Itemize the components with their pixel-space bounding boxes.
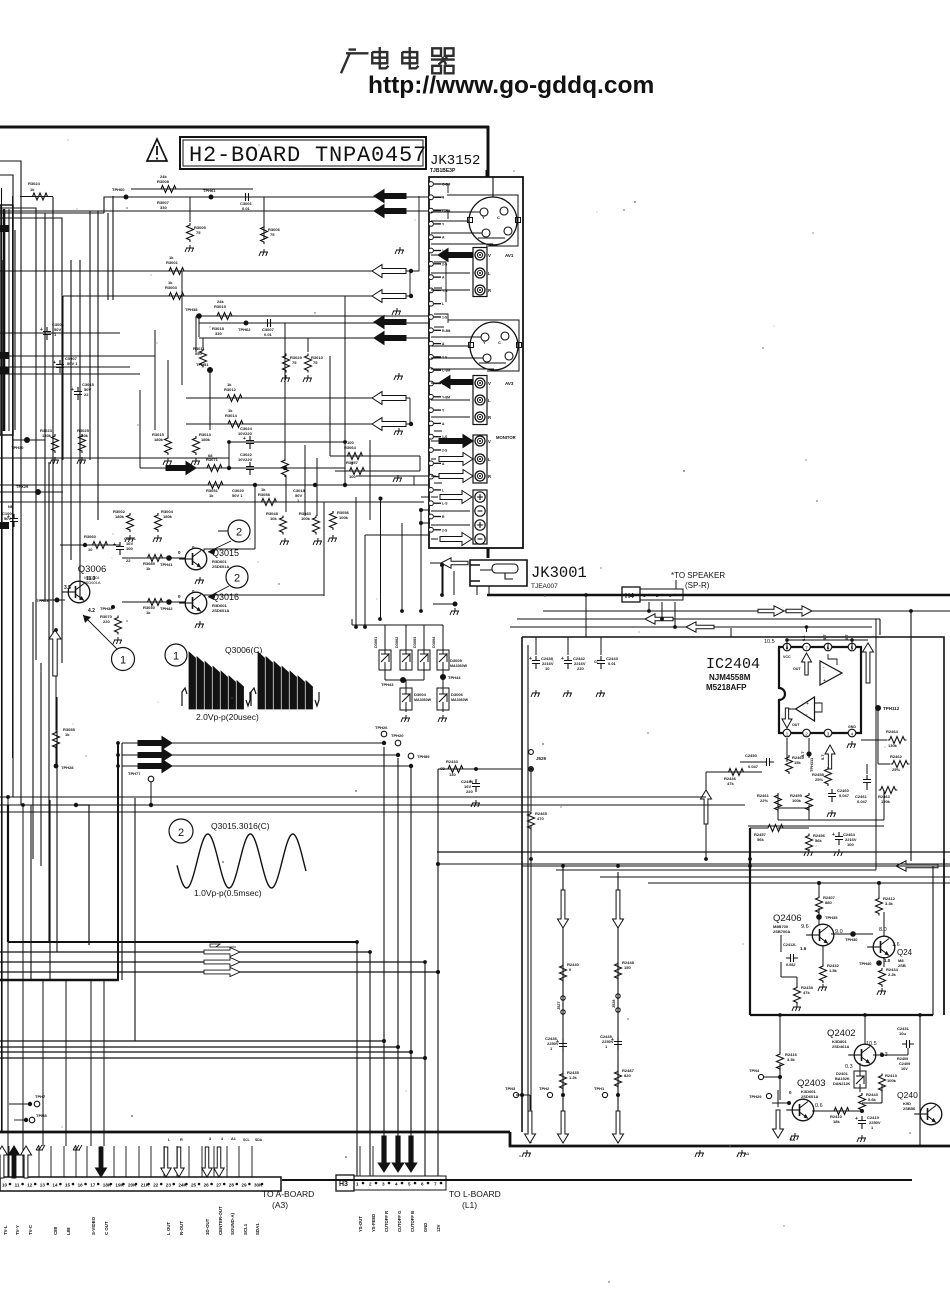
svg-text:100k: 100k — [339, 515, 349, 520]
svg-text:Q3006(C): Q3006(C) — [225, 645, 262, 655]
bus wires y952-972 with white arrows — [0, 951, 370, 953]
svg-text:1k: 1k — [227, 382, 232, 387]
svg-text:D3004: D3004 — [414, 692, 427, 697]
A-board connector box — [0, 1177, 281, 1191]
svg-text:Q2406: Q2406 — [773, 913, 802, 924]
resistor R2407 820 — [816, 896, 823, 915]
svg-text:330: 330 — [215, 331, 222, 336]
transistor Q3016 — [185, 592, 207, 614]
svg-text:Q24: Q24 — [897, 948, 913, 957]
svg-text:L: L — [488, 457, 491, 462]
resistor R2462 22k — [891, 761, 910, 768]
test point TPH43 — [400, 677, 406, 683]
feed verticals from pin area down — [355, 497, 357, 627]
svg-text:Q2403: Q2403 — [797, 1078, 826, 1089]
wires DIN1 to pins — [431, 211, 480, 213]
connector pin vertical wires — [8, 1146, 10, 1177]
svg-text:100: 100 — [126, 546, 133, 551]
svg-text:2: 2 — [178, 827, 184, 839]
wire y485 R3051 C3020 — [0, 484, 424, 486]
svg-text:*TO SPEAKER: *TO SPEAKER — [671, 571, 725, 580]
svg-text:TPN3: TPN3 — [505, 1086, 516, 1091]
svg-text:10V220: 10V220 — [238, 431, 253, 436]
resistor R2438 47k — [794, 986, 801, 1005]
wire y296 with R3003 — [63, 295, 410, 297]
resistor R3024 — [31, 193, 50, 200]
svg-text:10u: 10u — [899, 1031, 906, 1036]
svg-text:1: 1 — [120, 655, 126, 667]
wire top row R3008 line — [131, 188, 253, 190]
svg-text:1k: 1k — [146, 610, 151, 615]
left horizontal wires mid — [0, 355, 155, 357]
test point TPH44 — [440, 674, 446, 680]
svg-text:9.6: 9.6 — [801, 924, 809, 930]
svg-text:0.01: 0.01 — [242, 206, 251, 211]
AV1 RCA jack group — [473, 248, 487, 297]
svg-text:24k: 24k — [160, 174, 167, 179]
svg-text:R: R — [488, 415, 491, 420]
svg-text:7: 7 — [434, 1182, 437, 1187]
wire x618 with white down arrow — [617, 872, 619, 1143]
svg-text:+: + — [71, 387, 74, 393]
svg-text:R3019: R3019 — [214, 304, 227, 309]
svg-text:TV-Y: TV-Y — [15, 1225, 20, 1235]
resistor R2440 0 — [560, 964, 567, 983]
circled 2 waveform2 — [169, 819, 193, 843]
svg-text:+: + — [855, 1116, 858, 1122]
svg-text:220: 220 — [466, 789, 473, 794]
resistor R2458 25% — [825, 767, 832, 786]
svg-text:16V: 16V — [901, 1067, 908, 1071]
svg-text:TPH40: TPH40 — [859, 961, 872, 966]
svg-text:TV-L: TV-L — [3, 1225, 8, 1235]
far right vertical wires — [919, 1015, 921, 1145]
svg-text:R3012: R3012 — [224, 387, 237, 392]
svg-text:24k: 24k — [217, 299, 224, 304]
test point TPH89 — [408, 753, 414, 759]
white arrow y398 — [372, 392, 406, 405]
svg-text:180k: 180k — [115, 514, 125, 519]
capacitor C2464 — [835, 832, 843, 845]
svg-text:L: L — [442, 488, 444, 492]
test point TPH29 — [766, 1093, 771, 1098]
svg-text:TPH28: TPH28 — [61, 765, 74, 770]
svg-text:TPH30: TPH30 — [11, 445, 24, 450]
svg-text:0.047: 0.047 — [839, 793, 850, 798]
IC top feedback wiring — [787, 640, 868, 649]
jumper J528 — [616, 994, 620, 998]
svg-text:470: 470 — [537, 816, 544, 821]
vertical wires mid column — [139, 390, 141, 468]
svg-text:4.2: 4.2 — [88, 608, 95, 614]
test point TPX29 — [35, 489, 41, 495]
nested corner wires top-left — [0, 161, 21, 805]
wire y442 — [229, 441, 345, 443]
svg-text:+: + — [823, 678, 826, 684]
capacitor C2412 — [786, 954, 798, 962]
arrow into AV1 V — [438, 249, 472, 262]
svg-text:TPH38: TPH38 — [185, 307, 198, 312]
resistor R3010 75 — [307, 338, 309, 352]
capacitor C3015 — [74, 387, 82, 400]
resistor R3025 — [79, 434, 86, 453]
IC2404 body — [779, 647, 861, 733]
svg-text:MA3360W: MA3360W — [450, 664, 468, 668]
left offpage connector outline — [0, 205, 13, 435]
CUTOFF feed verticals from TPH dots — [383, 747, 385, 1140]
black arrow y211 — [374, 205, 406, 218]
svg-text:100: 100 — [847, 842, 854, 847]
right border vertical of top area — [487, 126, 490, 177]
resistor R3089 1k — [146, 555, 165, 562]
svg-text:TPX29: TPX29 — [16, 484, 29, 489]
svg-text:18k: 18k — [833, 1119, 840, 1124]
svg-text:3.5: 3.5 — [64, 585, 71, 591]
svg-text:http://www.go-gddq.com: http://www.go-gddq.com — [368, 72, 654, 99]
svg-text:11: 11 — [15, 1183, 20, 1188]
svg-text:12: 12 — [27, 1183, 33, 1188]
black arrow y338 — [374, 332, 406, 345]
svg-text:TPH61: TPH61 — [203, 188, 216, 193]
resistor R3083 100k — [313, 516, 320, 535]
DIN1 chord and enclosure wires — [447, 195, 518, 246]
speaker terminal group — [473, 490, 487, 544]
svg-text:SDA: SDA — [255, 1138, 263, 1142]
svg-text:100k: 100k — [792, 798, 802, 803]
svg-text:1k: 1k — [146, 566, 151, 571]
diode D3004 — [400, 688, 412, 710]
resistor R2433 130 — [446, 766, 465, 773]
resistor R2463 100k — [879, 787, 898, 794]
svg-text:15k: 15k — [794, 760, 801, 765]
resistor R2412 3.3k — [876, 897, 883, 916]
resistor R2459 100k — [806, 793, 813, 812]
capacitor C2442 — [567, 637, 569, 655]
svg-text:CUTOFF B: CUTOFF B — [410, 1211, 415, 1232]
svg-text:H2-BOARD TNPA0457: H2-BOARD TNPA0457 — [189, 143, 427, 168]
svg-text:100k: 100k — [887, 1078, 897, 1083]
circled 2 ref 1 — [228, 520, 250, 542]
svg-text:TPH7: TPH7 — [35, 1094, 46, 1099]
wire y619 — [517, 618, 880, 620]
svg-text:2-S: 2-S — [442, 355, 448, 359]
svg-text:220: 220 — [577, 666, 584, 671]
test point TPH1 — [602, 1092, 607, 1097]
vertical drop from H4 — [648, 602, 650, 611]
resistor R3030 1k — [146, 599, 165, 606]
svg-text:5.7: 5.7 — [822, 634, 827, 640]
resistor R3029 75 — [285, 338, 287, 352]
resistor R2432 1.5k — [820, 964, 827, 983]
svg-text:+: + — [561, 656, 564, 662]
svg-text:68: 68 — [208, 453, 213, 458]
resistor R2448 150 — [615, 962, 622, 981]
svg-text:TPH26: TPH26 — [375, 725, 388, 730]
white arrow up at pin7 — [802, 653, 812, 675]
white arrow y424 — [372, 418, 406, 431]
svg-text:14: 14 — [52, 1183, 58, 1188]
svg-text:75: 75 — [196, 230, 201, 235]
svg-text:2: 2 — [369, 1182, 372, 1187]
svg-text:75: 75 — [270, 232, 275, 237]
thick vertical bus x118 — [117, 743, 119, 980]
svg-text:C-8M: C-8M — [442, 183, 450, 187]
svg-text:Q2402: Q2402 — [827, 1028, 856, 1039]
black down arrow pin17 — [96, 1147, 107, 1177]
svg-text:(L1): (L1) — [462, 1200, 477, 1210]
vertical wire x586 to audio box — [585, 595, 587, 637]
diode D3002 — [400, 650, 412, 670]
ground top of diode area — [453, 602, 458, 607]
svg-text:C88: C88 — [53, 1226, 58, 1235]
svg-text:L: L — [442, 302, 444, 306]
connector block JK3152 outline — [429, 177, 523, 548]
white down arrows to bottom bus — [525, 1111, 536, 1143]
warning triangle — [147, 139, 167, 161]
svg-text:11.3: 11.3 — [86, 576, 96, 582]
svg-text:D3002: D3002 — [395, 637, 399, 648]
svg-text:Y: Y — [483, 340, 486, 345]
test point TPH35 — [816, 914, 822, 920]
white arrow up at pin3 — [825, 745, 835, 769]
svg-text:MA3360W: MA3360W — [451, 698, 469, 702]
svg-text:R3003: R3003 — [165, 285, 178, 290]
svg-text:R3008: R3008 — [157, 179, 170, 184]
svg-text:SCL: SCL — [243, 1138, 250, 1142]
svg-text:JK3001: JK3001 — [531, 564, 587, 582]
IC2404 pins bottom 1 2 3 4 — [783, 729, 791, 737]
test point TPH63 — [55, 598, 60, 603]
svg-text:330: 330 — [160, 205, 167, 210]
svg-text:47k: 47k — [803, 990, 810, 995]
svg-text:MA3360W: MA3360W — [414, 698, 432, 702]
resistor R3020 R3029 vertical pair — [284, 323, 286, 445]
resistor R3013 180k — [193, 436, 200, 455]
svg-text:TJEA007: TJEA007 — [531, 583, 558, 590]
svg-text:3: 3 — [209, 1137, 211, 1141]
svg-text:100: 100 — [349, 474, 356, 479]
svg-text:IC2404: IC2404 — [706, 656, 760, 673]
svg-text:2: 2 — [234, 573, 240, 585]
svg-text:GND: GND — [423, 1223, 428, 1232]
svg-text:H4: H4 — [625, 593, 634, 600]
bottom second bus line — [282, 1179, 912, 1181]
svg-text:100k: 100k — [301, 516, 311, 521]
svg-text:130: 130 — [449, 772, 456, 777]
svg-text:50V 1: 50V 1 — [67, 361, 78, 366]
wire y323 R3018 TPH62 C3007 — [199, 322, 429, 324]
svg-text:TPH35: TPH35 — [825, 915, 838, 920]
test point TPH51 — [207, 367, 213, 373]
diode D3003 — [418, 650, 430, 670]
JK3001 bottom feeds — [476, 586, 478, 595]
svg-text:GND: GND — [848, 725, 856, 729]
svg-text:TPH89: TPH89 — [417, 754, 430, 759]
resistor R2434 2.2k — [879, 968, 886, 987]
transistor Q2407 — [873, 936, 895, 958]
svg-text:56k: 56k — [815, 838, 822, 843]
svg-text:D3003: D3003 — [413, 637, 417, 648]
svg-text:25: 25 — [191, 1183, 197, 1188]
bus arrows mid left (3 black) — [122, 742, 384, 744]
test point TPH77 — [148, 776, 154, 782]
left vertical wires — [1, 188, 3, 1131]
svg-text:NF: NF — [8, 504, 14, 509]
svg-text:D3004: D3004 — [432, 636, 436, 648]
resistor R3064 100 — [346, 453, 365, 460]
svg-text:J528: J528 — [612, 1000, 616, 1008]
resistor R3055 — [55, 676, 57, 730]
svg-text:+: + — [53, 360, 56, 366]
svg-text:2SD601A: 2SD601A — [212, 608, 229, 613]
svg-text:880: 880 — [825, 900, 832, 905]
resistor R3070 220 — [115, 616, 122, 635]
svg-text:J527: J527 — [557, 1002, 561, 1010]
resistor R2442 5.6k — [859, 1093, 866, 1112]
svg-text:17: 17 — [90, 1183, 96, 1188]
svg-text:L OUT: L OUT — [166, 1222, 171, 1235]
DIN2 chord and enclosure wires — [448, 320, 519, 371]
test point TPH20 — [395, 740, 401, 746]
test point TPH7 — [28, 1102, 32, 1106]
H3 pin short stubs — [359, 1146, 361, 1176]
svg-text:3.3k: 3.3k — [885, 901, 894, 906]
svg-text:1k: 1k — [30, 187, 35, 192]
thick corner bus y980 — [0, 979, 119, 981]
svg-text:TPH77: TPH77 — [128, 771, 141, 776]
circled 1 waveform label — [165, 644, 187, 666]
svg-text:180k: 180k — [163, 514, 173, 519]
thick corner bus x8/y942 — [7, 805, 9, 942]
svg-text:1: 1 — [356, 1182, 359, 1187]
svg-text:TPH42: TPH42 — [160, 606, 173, 611]
svg-text:YS-FEED: YS-FEED — [371, 1214, 376, 1232]
diode D3006 — [437, 688, 449, 710]
arrow terminal 4 — [440, 533, 472, 546]
capacitor C2419 — [858, 1116, 866, 1129]
svg-text:D3001: D3001 — [374, 637, 378, 648]
svg-text:2250V: 2250V — [602, 1039, 614, 1044]
small ground symbols on pins — [36, 1145, 45, 1150]
svg-text:23: 23 — [166, 1183, 172, 1188]
test point TPH30 — [850, 931, 856, 937]
svg-text:TPH44: TPH44 — [448, 675, 461, 680]
svg-text:2-S: 2-S — [442, 528, 448, 532]
scan specks — [314, 312, 315, 313]
svg-text:1.5k: 1.5k — [829, 968, 838, 973]
resistor R2435 1.2k — [560, 1072, 567, 1091]
svg-text:1: 1 — [173, 651, 179, 663]
test point TPN3 — [513, 1092, 518, 1097]
svg-text:C: C — [498, 340, 501, 345]
capacitor C2435 — [614, 1037, 622, 1050]
top border line — [0, 126, 489, 129]
connector J529 — [529, 750, 534, 755]
svg-text:10: 10 — [545, 666, 550, 671]
resistor R3005 vertical w/ ground — [189, 197, 191, 222]
diode D2401 — [854, 1071, 866, 1088]
svg-text:Y-8M: Y-8M — [442, 395, 450, 399]
resistor R2413 100k — [879, 1074, 886, 1093]
svg-text:R3060: R3060 — [84, 534, 97, 539]
svg-text:1k: 1k — [228, 408, 233, 413]
svg-text:2250V: 2250V — [547, 1041, 559, 1046]
svg-text:180k: 180k — [79, 433, 89, 438]
svg-text:Y: Y — [482, 215, 485, 220]
svg-text:V: V — [488, 381, 491, 386]
svg-text:5: 5 — [408, 1182, 411, 1187]
svg-text:6: 6 — [421, 1182, 424, 1187]
grounds below bottom bus — [522, 1150, 531, 1157]
svg-text:820: 820 — [624, 1073, 631, 1078]
resistor R2464 130k — [888, 737, 907, 744]
header Chinese text 广电电器 (drawn strokes) — [341, 47, 455, 73]
wire y211 full — [0, 210, 429, 212]
svg-text:TO A-BOARD: TO A-BOARD — [262, 1189, 314, 1199]
waveform 1 sawtooth burst drawing — [189, 652, 244, 709]
arrow terminal 1 — [440, 491, 472, 504]
svg-text:A1: A1 — [231, 1137, 236, 1141]
chevron arrow left y627 — [686, 622, 714, 632]
svg-text:TPH60: TPH60 — [112, 187, 125, 192]
svg-text:CENTER-OUT: CENTER-OUT — [218, 1206, 223, 1235]
DIN connector AV3 (S-video) — [470, 322, 518, 370]
resistor R3056 100k — [330, 511, 337, 530]
svg-text:MONITOR: MONITOR — [496, 435, 516, 440]
right outer vertical — [910, 611, 912, 861]
svg-text:TPH43: TPH43 — [381, 682, 394, 687]
svg-text:TPH1: TPH1 — [594, 1086, 605, 1091]
wire y468 black arrow R3071 C3022 — [140, 467, 345, 469]
arrow into AV3 V — [440, 376, 472, 389]
test point TPH40 — [876, 960, 882, 966]
svg-text:L-S: L-S — [442, 502, 448, 506]
svg-text:SCL1: SCL1 — [243, 1223, 248, 1235]
svg-text:2-S: 2-S — [442, 449, 448, 453]
svg-text:22: 22 — [126, 558, 131, 563]
svg-text:29: 29 — [241, 1183, 247, 1188]
svg-text:1.2k: 1.2k — [569, 1075, 578, 1080]
svg-text:NJM4558M: NJM4558M — [709, 673, 751, 682]
svg-text:1.6: 1.6 — [800, 946, 807, 951]
svg-text:C2412L: C2412L — [783, 943, 797, 947]
svg-text:1-S: 1-S — [442, 316, 448, 320]
svg-text:0.047: 0.047 — [748, 764, 759, 769]
svg-text:L88: L88 — [66, 1227, 71, 1235]
svg-text:C OUT: C OUT — [104, 1221, 109, 1235]
inner bottom rail — [778, 807, 809, 809]
svg-text:A1: A1 — [744, 1151, 750, 1156]
svg-text:R: R — [488, 288, 491, 293]
svg-text:TO L-BOARD: TO L-BOARD — [449, 1189, 501, 1199]
svg-text:1k: 1k — [65, 732, 70, 737]
op-amp B (bottom) — [796, 697, 815, 721]
svg-text:R2462: R2462 — [890, 754, 903, 759]
svg-text:130k: 130k — [888, 743, 898, 748]
svg-text:TPM8: TPM8 — [36, 1113, 47, 1118]
svg-text:V: V — [488, 439, 491, 444]
svg-text:TPH30: TPH30 — [845, 937, 858, 942]
svg-text:TJB1BE3P: TJB1BE3P — [430, 168, 456, 174]
svg-text:2SB700A: 2SB700A — [773, 929, 790, 934]
IC2404 pins top 8 7 6 5 — [783, 643, 791, 651]
resistor R2460 15k — [786, 755, 793, 774]
svg-text:1.0Vp-p(0.5msec): 1.0Vp-p(0.5msec) — [194, 888, 262, 898]
svg-text:BA152K: BA152K — [835, 1077, 850, 1081]
capacitor C3021 — [116, 542, 124, 555]
svg-text:+: + — [832, 832, 835, 838]
svg-text:S-VIDEO: S-VIDEO — [91, 1216, 96, 1235]
